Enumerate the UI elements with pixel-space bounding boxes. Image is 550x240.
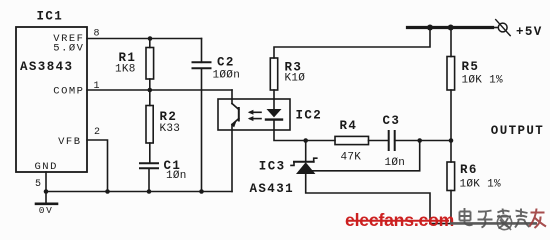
IC3 cathode bar right tick xyxy=(314,158,317,162)
resistor R2 xyxy=(146,106,153,144)
wire: ground rail IC1 GND to optocoupler emitter xyxy=(46,191,232,193)
terminal +5V connector circle xyxy=(493,20,511,36)
wire: pin5 junction down to 0V symbol xyxy=(45,192,47,204)
shunt regulator IC3 AS431: cathode lead xyxy=(305,141,307,162)
resistor R3 xyxy=(270,58,277,90)
watermark chinese glyph you reddish xyxy=(530,209,547,229)
capacitor C2 xyxy=(193,62,211,68)
svg-text:IC1: IC1 xyxy=(37,10,64,24)
svg-text:AS3843: AS3843 xyxy=(20,60,73,74)
svg-text:5.ØV: 5.ØV xyxy=(53,43,84,55)
svg-text:IC3: IC3 xyxy=(259,160,286,174)
wire: bottom link anode to R6 bottom xyxy=(430,223,451,225)
wire: IC3 reference to divider node xyxy=(311,141,420,171)
node: junction rail / VFB branch xyxy=(105,189,110,194)
watermark chinese glyph zi xyxy=(478,211,493,228)
wire: LED cathode down and right to IC3 cathode node xyxy=(274,120,306,141)
watermark strikethrough line xyxy=(450,222,537,225)
wire: emitter down to ground rail xyxy=(231,125,233,192)
node: junction rail / C1 xyxy=(147,189,152,194)
diode LED of IC2: anode lead xyxy=(273,99,275,109)
wire: R1 top stub xyxy=(149,39,151,48)
IC2 light arrow upper xyxy=(248,110,261,115)
svg-text:K1Ø: K1Ø xyxy=(285,73,306,85)
svg-text:COMP: COMP xyxy=(53,86,84,98)
wire: R6 top stub xyxy=(450,141,452,163)
svg-text:C2: C2 xyxy=(217,56,235,70)
transistor Q of IC2: emitter arrowhead xyxy=(231,122,236,128)
svg-text:1Øn: 1Øn xyxy=(385,157,406,169)
svg-text:1ØK 1%: 1ØK 1% xyxy=(460,179,502,191)
watermark elecfans.com xyxy=(345,210,454,230)
svg-text:K33: K33 xyxy=(160,123,181,135)
watermark chinese glyph dian xyxy=(459,208,473,225)
wire: IC3 anode down and right xyxy=(306,174,430,224)
node: junction rail / R5 xyxy=(448,25,454,31)
op-amp U1: IC1 AS3843 controller body xyxy=(16,27,87,172)
wire: GND pin 5 stub xyxy=(45,172,47,192)
resistor R1 xyxy=(146,48,154,80)
wire: node to R4 left xyxy=(306,140,335,142)
wire: R3 bottom into optocoupler xyxy=(273,90,275,99)
svg-text:47K: 47K xyxy=(341,152,362,164)
svg-text:8: 8 xyxy=(94,28,100,39)
transistor Q of IC2: emitter angle xyxy=(232,119,239,125)
svg-text:1ØK 1%: 1ØK 1% xyxy=(462,75,504,87)
watermark chinese glyph shao xyxy=(515,209,530,228)
capacitor C1 xyxy=(140,163,158,168)
resistor R5 xyxy=(447,57,455,91)
svg-text:AS431: AS431 xyxy=(250,182,295,196)
node: junction COMP wire / R1 / R2 xyxy=(148,88,153,93)
svg-text:1Øn: 1Øn xyxy=(166,170,187,182)
svg-text:R4: R4 xyxy=(340,119,358,133)
svg-text:R2: R2 xyxy=(160,110,178,124)
transistor Q of IC2: base bar xyxy=(238,108,240,121)
svg-text:R5: R5 xyxy=(462,60,480,74)
wire: C2 top stub xyxy=(201,39,203,63)
wire: C1 bottom stub xyxy=(148,168,150,191)
svg-text:1ØØn: 1ØØn xyxy=(213,70,241,82)
wire: COMP pin 1 to optocoupler collector xyxy=(87,89,232,91)
node: junction VREF wire / R1 top xyxy=(148,36,153,41)
wire: R5 bottom to divider node xyxy=(450,90,452,141)
node: junction REF riser xyxy=(417,138,422,143)
svg-text:C3: C3 xyxy=(383,114,401,128)
resistor R6 xyxy=(447,162,455,191)
svg-text:VFB: VFB xyxy=(58,136,81,148)
IC3 triangle xyxy=(296,162,315,174)
wire: VFB pin 2 down to rail xyxy=(87,140,108,192)
wire: R4 right to C3 left plate xyxy=(369,140,389,142)
watermark chinese glyph fa xyxy=(497,209,511,229)
capacitor C3 xyxy=(389,131,395,150)
diode LED of IC2: triangle xyxy=(267,109,282,117)
svg-text:R6: R6 xyxy=(460,163,478,177)
wire: C2 bottom to rail xyxy=(201,68,203,191)
svg-text:1K8: 1K8 xyxy=(115,64,136,76)
svg-text:0V: 0V xyxy=(39,205,54,216)
transistor Q of IC2: collector lead xyxy=(231,90,233,104)
wire: C3 right plate to divider node xyxy=(395,140,451,142)
wire: R2 top stub xyxy=(149,90,151,106)
wire: R3 top to +5V riser xyxy=(274,28,430,59)
node: junction rail / C2 xyxy=(199,189,204,194)
optocoupler IC2 body xyxy=(218,99,290,130)
diode LED of IC2: cathode bar xyxy=(266,118,282,120)
node: junction LED cathode / IC3 cathode / R4 xyxy=(303,138,308,143)
wire: R2 bottom to C1 top xyxy=(149,143,151,163)
resistor R4 xyxy=(335,136,369,144)
ground 0V symbol xyxy=(36,204,57,216)
svg-text:OUTPUT: OUTPUT xyxy=(491,124,544,138)
wire: R5 top stub xyxy=(450,28,452,57)
svg-text:IC2: IC2 xyxy=(296,109,323,123)
wire: R1 bottom stub xyxy=(149,79,151,90)
svg-text:2: 2 xyxy=(94,127,100,138)
svg-text:+5V: +5V xyxy=(516,25,543,39)
node: junction divider R5 R6 xyxy=(449,138,454,143)
wire: VREF pin 8 to C2 top xyxy=(87,38,202,40)
svg-text:5: 5 xyxy=(35,179,41,190)
IC3 cathode bar xyxy=(294,161,314,163)
IC2 light arrow lower xyxy=(248,116,261,121)
power +5V rail xyxy=(408,26,493,29)
node: junction rail / R3 riser xyxy=(427,25,433,31)
transistor Q of IC2: collector angle xyxy=(232,104,239,110)
IC3 cathode bar left tick xyxy=(291,162,294,166)
watermark circle slash mark xyxy=(497,215,511,230)
node: junction rail / pin 5 xyxy=(44,189,49,194)
wire: R6 bottom down xyxy=(450,191,452,224)
